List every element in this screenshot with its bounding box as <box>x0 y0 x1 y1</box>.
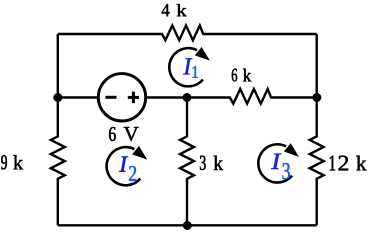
resistor 9 k value label <box>1 155 23 169</box>
wire middle horizontal left segment <box>58 96 99 98</box>
wire bottom <box>58 224 317 226</box>
mesh current I2 loop arrow <box>107 146 148 185</box>
wire top with 4k resistor zigzag <box>58 26 317 41</box>
resistor 3 k value label <box>200 156 223 170</box>
wire left with 9k resistor zigzag <box>51 34 65 225</box>
resistor 6 k value label <box>232 69 252 82</box>
node at center middle junction <box>183 93 192 102</box>
node at left middle junction <box>53 93 62 102</box>
mesh current I3 loop arrow <box>258 143 299 182</box>
voltage source plus sign <box>128 96 139 99</box>
node at bottom center junction <box>183 221 192 230</box>
voltage source 6 V value label <box>109 127 138 141</box>
wire middle vertical with 3k resistor zigzag <box>180 98 194 226</box>
mesh current I1 loop arrow <box>169 47 210 86</box>
node at right middle junction <box>312 93 321 102</box>
wire right with 12k resistor zigzag <box>310 34 324 225</box>
resistor 12 k value label <box>330 156 367 171</box>
resistor R1 4 k value label <box>162 4 187 16</box>
mesh current I3 label <box>271 154 290 180</box>
wire middle horizontal right segment with 6k resistor zigzag <box>146 89 317 104</box>
voltage source minus sign <box>105 96 116 99</box>
voltage source 6V circle <box>98 74 145 121</box>
mesh current I2 label <box>119 156 136 181</box>
mesh current I1 label <box>183 58 198 77</box>
